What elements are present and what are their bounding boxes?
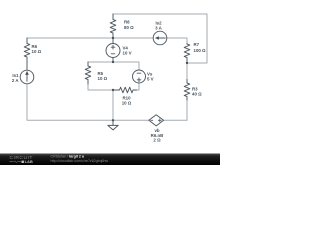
wire node A to Is2 left — [113, 37, 153, 39]
resistor R10 — [113, 87, 137, 93]
wire diamond right to bottom right corner — [164, 100, 187, 120]
svg-text:3 A: 3 A — [155, 26, 162, 31]
current source Is1 — [20, 70, 34, 84]
voltage source V4 — [106, 44, 120, 58]
resistor R8 — [110, 14, 116, 38]
svg-text:5 V: 5 V — [147, 76, 154, 81]
wire ground drop — [112, 90, 114, 120]
dependent source vb (diamond CCVS) — [149, 115, 164, 126]
resistor R7 — [184, 44, 190, 64]
svg-text:LAB: LAB — [25, 159, 33, 164]
node junction dots — [112, 37, 114, 39]
current source Is2 — [153, 31, 167, 45]
footer logo CIRCUIT LAB — [10, 155, 109, 165]
svg-text:80 Ω: 80 Ω — [124, 25, 134, 30]
svg-text:2 Ω: 2 Ω — [153, 138, 161, 143]
svg-text:100 Ω: 100 Ω — [194, 48, 207, 53]
svg-text:10 Ω: 10 Ω — [32, 49, 42, 54]
svg-text:10 Ω: 10 Ω — [122, 100, 132, 105]
resistor R6 — [24, 38, 30, 70]
ground — [108, 120, 118, 130]
wire left rail down from Is1 to bottom — [27, 84, 149, 120]
wire top row left: node A horizontal — [27, 37, 113, 39]
wire R3 top lead — [186, 63, 188, 80]
svg-text:R7: R7 — [194, 42, 200, 47]
wire R5 bottom corner to junction — [88, 84, 113, 90]
svg-text:10 Ω: 10 Ω — [98, 76, 108, 81]
resistor R3 — [184, 80, 190, 101]
footer bar — [0, 154, 220, 166]
wire R8 top loop — [113, 14, 207, 63]
wire R10 right corner up to Vs bottom — [137, 83, 140, 90]
svg-text:40 Ω: 40 Ω — [192, 92, 202, 97]
svg-text:R8: R8 — [124, 19, 130, 24]
resistor R5 — [85, 62, 91, 84]
wire Is2 right to R7 top corner — [167, 38, 187, 44]
svg-text:10 V: 10 V — [123, 51, 132, 56]
voltage source Vs — [133, 70, 146, 83]
svg-text:2 A: 2 A — [12, 78, 19, 83]
svg-text:http://circuitlab.com/c/re7z62: http://circuitlab.com/c/re7z62gbq6hw — [51, 159, 109, 163]
wire R3 bottom lead — [186, 100, 188, 120]
wire middle row y62 — [88, 62, 139, 70]
